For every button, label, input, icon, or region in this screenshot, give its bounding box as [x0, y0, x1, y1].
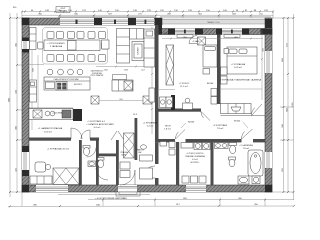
door bedroom2 [251, 104, 262, 116]
beam line between columns [99, 100, 143, 102]
svg-text:SUSZ.: SUSZ. [121, 155, 127, 157]
double door living->bedroom wing [71, 128, 82, 139]
svg-text:1.8 m2: 1.8 m2 [164, 129, 171, 131]
window frames right wing [177, 35, 240, 38]
window mullions [76, 20, 233, 34]
bedroom2 bottom line [221, 115, 266, 117]
window top bedroom1 [175, 29, 195, 35]
left vertical dimension lines [9, 13, 11, 197]
svg-text:+2 KORYTARZ: +2 KORYTARZ [213, 124, 228, 127]
hall wall mid [116, 140, 119, 185]
interior wall V2 bedroom divider [217, 35, 221, 105]
desk bedroom1 [183, 98, 193, 109]
FURNITURE wc middle [83, 146, 90, 156]
svg-text:+2 SYPIALNIA Z GARDEROBA I LAZ: +2 SYPIALNIA Z GARDEROBA I LAZIENKA [219, 79, 262, 82]
kitchen worktop island [44, 77, 90, 90]
internal dim line living [96, 66, 155, 68]
side box bed2 [224, 49, 229, 54]
window top 3 [136, 18, 154, 25]
svg-text:+2 POKOJ: +2 POKOJ [179, 83, 189, 85]
svg-text:60/90: 60/90 [163, 33, 169, 35]
pantry closet X [124, 133, 135, 158]
door V1 lower [143, 166, 155, 178]
door hall leafs [111, 131, 124, 140]
svg-text:90/200: 90/200 [234, 121, 241, 123]
door bedroom1 [201, 112, 210, 121]
window top 2 [102, 18, 128, 25]
svg-text:KOMINEK: KOMINEK [138, 46, 140, 55]
room labels [38, 40, 262, 200]
bedroom1 bottom wall [158, 109, 201, 112]
svg-text:11.1 m2: 11.1 m2 [180, 86, 188, 88]
svg-text:+1 GABINET/SYPIALNIA: +1 GABINET/SYPIALNIA [38, 127, 63, 130]
bed 2 bedroom2 [227, 47, 257, 74]
window bottom utility [186, 185, 206, 192]
washer bathroom corner [252, 176, 260, 184]
svg-text:80/160: 80/160 [207, 83, 214, 85]
svg-text:PARTERU: PARTERU [59, 10, 68, 13]
svg-text:+-0.00 PRZYZIEMIE PARTERU: +-0.00 PRZYZIEMIE PARTERU [95, 197, 126, 200]
window left wall lower [22, 152, 29, 170]
svg-text:Z JADALNIA: Z JADALNIA [50, 45, 63, 48]
column pillar left [91, 96, 99, 104]
door wc arc [96, 168, 108, 180]
label box kitchen [113, 75, 127, 80]
tall cabinet column right of living [144, 29, 155, 67]
dimension chains [8, 12, 294, 207]
svg-text:+1 POK.DZIENNY: +1 POK.DZIENNY [47, 43, 65, 45]
corridor bottom wall H2 [155, 139, 175, 142]
window top 1 [60, 18, 94, 25]
right wall [265, 18, 272, 192]
kitchen peninsula unit [112, 80, 133, 91]
top wall left section [22, 18, 162, 25]
wc top arc [87, 148, 97, 158]
svg-text:CIAG ROBOCZY KUCHNI: CIAG ROBOCZY KUCHNI [53, 78, 79, 81]
svg-text:90/200: 90/200 [188, 122, 195, 124]
utility right / bath left wall [211, 142, 214, 185]
duct pier kitchen [73, 109, 82, 121]
top wall right wing (lower) [155, 29, 272, 35]
laundry fixtures mid [120, 162, 130, 178]
duct pier garderoba [171, 95, 175, 110]
svg-text:TARAS 17.60: TARAS 17.60 [207, 21, 220, 24]
washbasin bathroom [238, 176, 249, 184]
corner sofa living [117, 29, 144, 64]
interior wall V1 living/hall [155, 25, 159, 139]
wall corner piers (darker) [22, 18, 272, 192]
dimension tick marks [9, 11, 295, 208]
kitchen counter north [29, 108, 73, 120]
internal dim ticks/numbers [151, 38, 263, 111]
svg-text:+1 SYPIALNIA 13.6 m2: +1 SYPIALNIA 13.6 m2 [47, 148, 70, 151]
utility left wall [176, 142, 179, 185]
cabinet lower near living wall [149, 88, 155, 102]
tv / fireplace unit [132, 42, 144, 61]
entry door arc [120, 170, 135, 185]
entry steps outside [116, 192, 140, 196]
internal dimension lines [29, 27, 263, 134]
window sill lines [58, 17, 156, 18]
bottom horizontal dimension lines [88, 199, 294, 201]
svg-text:TECH: TECH [165, 126, 171, 128]
left wall [22, 18, 29, 192]
svg-text:14.9 m2: 14.9 m2 [234, 67, 243, 69]
closet strip bedroom1 SE [211, 89, 217, 105]
window left wall small [22, 41, 29, 49]
low cabinet [30, 176, 52, 184]
svg-text:PRALKA: PRALKA [120, 151, 128, 154]
wall cabinets left [30, 80, 37, 102]
dining table [44, 40, 100, 51]
svg-text:+2 GARD.: +2 GARD. [192, 40, 200, 43]
toilet [229, 143, 237, 154]
double washbasin [215, 143, 229, 149]
right vertical dimension lines [283, 18, 285, 193]
terrace edge top right [160, 17, 271, 24]
svg-text:+2 SYPIALNIA: +2 SYPIALNIA [231, 63, 246, 66]
wardrobe X wide [53, 168, 79, 185]
pantry wall [135, 118, 138, 160]
wardrobe X tall [166, 45, 174, 85]
hall small sink [140, 145, 153, 161]
arc bedroom1 top door [189, 36, 197, 44]
walkway line [58, 194, 150, 196]
svg-text:7.9 m2: 7.9 m2 [217, 128, 224, 130]
svg-text:+1 KORYTARZ 6.4: +1 KORYTARZ 6.4 [87, 120, 105, 123]
door utility [176, 130, 186, 140]
svg-text:+1 SPIZARNIA: +1 SPIZARNIA [143, 122, 158, 125]
dining rug [43, 28, 108, 65]
tech room fixtures [160, 142, 175, 156]
svg-text:+2 LAZIENKA: +2 LAZIENKA [239, 144, 253, 147]
chair right end [102, 42, 109, 49]
svg-text:WG PROJ.: WG PROJ. [74, 84, 83, 86]
top horizontal dimension lines [22, 11, 273, 13]
svg-text:10.9 m2: 10.9 m2 [44, 131, 53, 133]
column pillar right [143, 96, 152, 104]
svg-text:PROJ. WNETRZ: PROJ. WNETRZ [91, 75, 104, 77]
svg-text:8.3 m2: 8.3 m2 [192, 159, 198, 161]
nightstand bed1 [203, 69, 210, 75]
wc right wall [96, 140, 99, 185]
bed 1 bedroom1 [203, 45, 217, 67]
svg-text:PRALNIA / SUSZARNIA: PRALNIA / SUSZARNIA [185, 155, 205, 158]
svg-text:WG PROJ.: WG PROJ. [191, 162, 200, 164]
chairs top row [47, 32, 106, 39]
side table living [102, 40, 110, 49]
dresser bedroom2 [221, 104, 252, 114]
bathtub [248, 150, 263, 176]
window right wall bathroom [265, 152, 272, 168]
window right wall bedroom2 [265, 51, 272, 73]
appliance row south of garderoba [160, 97, 173, 108]
bedroom SW right wall [79, 140, 82, 185]
bar stools [47, 69, 83, 75]
door bathroom [242, 129, 253, 139]
leader annotations [87, 33, 241, 124]
exterior walls [22, 18, 272, 192]
svg-text:+1 KUCHNIA: +1 KUCHNIA [52, 112, 63, 115]
tv sideboard [30, 28, 37, 50]
dimension numbers [8, 7, 294, 207]
svg-text:2.4 m2: 2.4 m2 [147, 126, 154, 128]
window bottom bedroom [36, 185, 68, 192]
window top bedroom2 [222, 29, 242, 35]
nightstand bedroom2 [221, 67, 228, 84]
svg-text:+2 POKOJ GOSPOD.: +2 POKOJ GOSPOD. [186, 153, 204, 155]
FURNITURE utility [181, 143, 210, 150]
chairs bottom row [47, 55, 106, 62]
armchair + table [35, 162, 51, 172]
svg-text:+1 WIATROLAP/KORYTARZ: +1 WIATROLAP/KORYTARZ [86, 123, 114, 126]
left section divider H3 [29, 138, 71, 141]
entry door opening [118, 185, 137, 192]
top-left note box [56, 7, 70, 13]
closet X small bedroom1 [198, 37, 206, 45]
chair left end [38, 42, 44, 49]
bottom wall [22, 185, 272, 192]
svg-text:6.4 m2: 6.4 m2 [94, 127, 101, 129]
bidet [229, 157, 236, 167]
svg-text:7.8 m2: 7.8 m2 [243, 148, 250, 150]
door arcs [71, 104, 262, 185]
toilet 2 [98, 158, 105, 168]
wiatrolap top wall H4 [98, 154, 118, 157]
